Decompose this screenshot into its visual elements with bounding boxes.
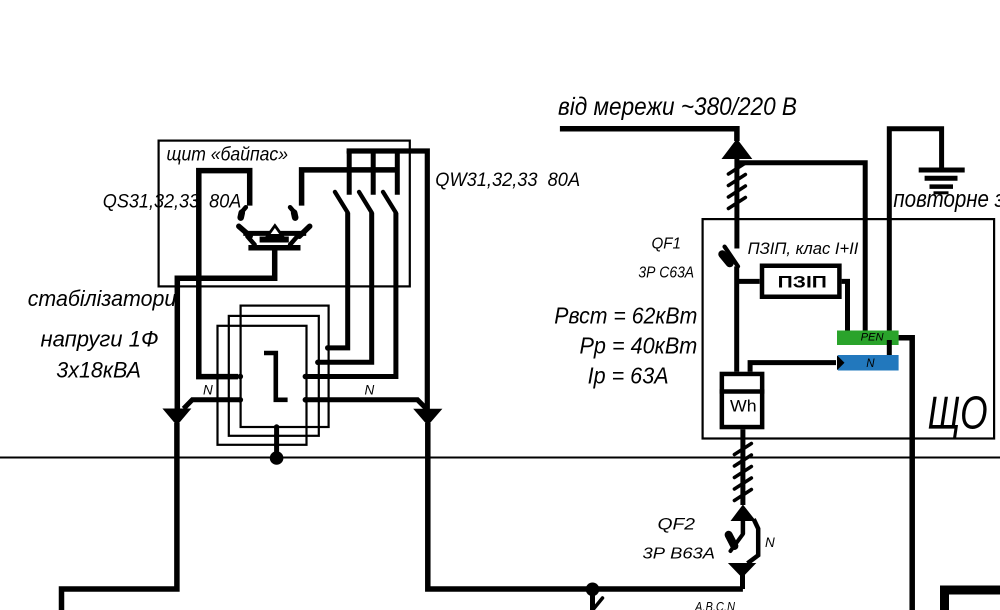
cable hatch 9: [734, 490, 751, 501]
cable hatch 8: [734, 478, 751, 489]
switch QW pole 3 top wire: [395, 151, 400, 195]
switch QS31,32,33: bowl left outer diagonal: [239, 226, 250, 236]
switch QW pole 3 blade: [383, 192, 396, 213]
bypass panel box "щит байпас": [159, 141, 410, 287]
node: N left dot: [238, 397, 244, 403]
N bus bar: [838, 355, 899, 371]
wire: N line right of stabilizer to right arrow: [305, 400, 426, 409]
ground bar 3: [930, 184, 954, 189]
wire: PEN to N link: [887, 340, 892, 362]
wire: left output continues to bottom left exit: [62, 423, 177, 610]
wire: supply line with corner: [560, 129, 737, 141]
arrow: right output down-arrow: [414, 409, 441, 425]
svg-text:QS31,32,33 80А: QS31,32,33 80А: [103, 191, 242, 213]
switch QW pole 1 top wire: [347, 151, 352, 195]
wire: QW pole 2 lower to stabilizer rect B: [318, 213, 371, 362]
node: big junction dot on thin bus: [270, 451, 284, 465]
wire: stabilizer bottom stem: [274, 427, 279, 458]
wire: QF2 down stub: [740, 574, 745, 589]
wire: thin full-width horizontal line: [0, 457, 1000, 459]
cable hatch 2: [728, 175, 745, 186]
switch QS31,32,33: left jaw blob: [241, 213, 242, 218]
wire: PEN right to PE down-line: [899, 338, 913, 610]
node: pole2 dot: [315, 360, 321, 366]
cable hatch 1: [728, 163, 745, 174]
wire: right output down to bottom bus: [428, 423, 743, 589]
svg-text:N: N: [765, 535, 775, 550]
stabilizer rect C: [218, 326, 307, 445]
wire: meter N wire to N bus: [750, 363, 836, 372]
svg-text:Рвст = 62кВт: Рвст = 62кВт: [554, 303, 697, 329]
wire: SPD to PEN bus: [842, 281, 848, 337]
switch QS31,32,33: right jaw blob: [294, 213, 295, 218]
wire: QW top bus with right drop to output arrow: [347, 151, 428, 410]
switch QS31,32,33: bowl rim: [243, 231, 306, 236]
svg-text:3x18кВА: 3x18кВА: [56, 358, 141, 383]
wire: QS right contact feed (to QW pole 3): [302, 170, 398, 206]
wire: repeated ground branch: [889, 129, 941, 337]
svg-text:3Р В63А: 3Р В63А: [643, 546, 716, 563]
wire: Wh output cable down: [740, 429, 745, 505]
ground bar 1: [919, 168, 965, 173]
bottom right panel box: [945, 590, 1000, 610]
node: bottom junction dot: [586, 583, 600, 597]
node: stabilizer input dot: [238, 374, 244, 380]
PEN bus bar: [837, 331, 899, 346]
wire: branch from supply to PEN bus: [737, 163, 865, 337]
node: stem dot on rect B bottom: [274, 433, 279, 438]
switch QS31,32,33: left jaw: [242, 207, 246, 211]
svg-text:QF1: QF1: [652, 236, 682, 253]
meter Wh divider: [720, 389, 765, 394]
breaker QF1 blade: [725, 247, 738, 267]
cable hatch 6: [734, 455, 751, 466]
wire: QF1 output to Wh: [734, 266, 739, 371]
wire: to SPD: [737, 279, 760, 284]
node: N right dot: [303, 397, 309, 403]
svg-text:напруги 1Ф: напруги 1Ф: [41, 327, 159, 352]
arrow: left output down-arrow: [164, 409, 191, 425]
svg-text:N: N: [365, 383, 375, 398]
wire: supply drop to QF1: [734, 159, 739, 249]
breaker QF2 tick: [729, 535, 735, 546]
wire: QW pole 3 lower to stabilizer rect C: [306, 213, 396, 377]
svg-text:N: N: [203, 383, 213, 398]
breaker QF2 blade: [731, 534, 744, 551]
switch QS31,32,33: inner bar: [260, 237, 289, 243]
svg-text:3Р С63А: 3Р С63А: [638, 265, 694, 282]
svg-text:PEN: PEN: [861, 332, 884, 344]
svg-text:Ір = 63А: Ір = 63А: [588, 363, 669, 389]
svg-text:Wh: Wh: [730, 398, 757, 416]
arrow: QF2 up-arrow: [731, 505, 756, 522]
node: pole1 dot: [325, 345, 331, 351]
svg-text:щит «байпас»: щит «байпас»: [167, 144, 289, 166]
switch QS31,32,33: bowl right side: [290, 236, 297, 244]
svg-text:стабілізатори: стабілізатори: [28, 286, 177, 311]
wire: QW pole 1 lower to stabilizer rect A: [328, 213, 348, 348]
stabilizer regulator symbol: [264, 353, 288, 400]
arrow: QF2 down-arrow: [728, 563, 756, 578]
switch QS31,32,33: right jaw: [290, 207, 294, 211]
cable hatch 7: [734, 467, 751, 478]
switch QW pole 1 blade: [335, 192, 348, 213]
switch QS31,32,33: bowl left side: [247, 236, 254, 244]
wire: QF2 stem: [741, 521, 746, 534]
svg-text:QF2: QF2: [658, 516, 696, 534]
svg-text:Рр = 40кВт: Рр = 40кВт: [580, 333, 698, 359]
box ЩО: [703, 219, 995, 438]
wire: N line left of stabilizer to left arrow: [184, 400, 241, 409]
wire: QF2 N bypass loop: [748, 519, 759, 563]
svg-text:повторне за: повторне за: [893, 186, 1000, 213]
meter Wh box: [722, 374, 762, 427]
SPD box ПЗІП: [762, 266, 839, 297]
wire: junction drop: [590, 589, 595, 610]
switch QW pole 2 top wire: [371, 151, 376, 195]
node: stem dot on rect A bottom: [274, 424, 279, 429]
svg-text:від мережи ~380/220 В: від мережи ~380/220 В: [558, 93, 797, 121]
wire: QS left contact feed (to stabilizer input): [199, 171, 250, 377]
svg-text:ПЗІП: ПЗІП: [778, 273, 827, 292]
arrow: supply up-arrow: [723, 140, 752, 159]
node: pole3 dot: [303, 374, 309, 380]
switch QW pole 2 blade: [359, 192, 372, 213]
ground bar 4: [934, 191, 949, 194]
stabilizer rect B: [229, 316, 319, 436]
switch QS31,32,33: bowl right outer diagonal: [299, 226, 309, 236]
svg-text:ЩО: ЩО: [928, 387, 988, 439]
switch QS31,32,33: bowl bottom bar: [248, 245, 300, 251]
wire: QS common stem down-left to output arrow: [177, 248, 274, 410]
node: stem dot on rect C bottom: [274, 442, 279, 447]
switch QS31,32,33: pointer triangle: [268, 226, 282, 236]
cable hatch 3: [728, 186, 745, 197]
svg-text:ПЗІП, клас І+ІІ: ПЗІП, клас І+ІІ: [748, 240, 859, 258]
ground bar 2: [925, 176, 958, 181]
cable hatch 5: [734, 444, 751, 455]
svg-text:А,В,С,N: А,В,С,N: [694, 599, 735, 610]
cable hatch 10: [594, 598, 603, 609]
arrow: N bus entry arrow: [837, 355, 845, 370]
breaker QF1 tick: [722, 254, 730, 263]
stabilizer rect A: [241, 306, 329, 427]
svg-text:QW31,32,33 80А: QW31,32,33 80А: [435, 169, 580, 191]
cable hatch 4: [728, 198, 745, 209]
svg-text:N: N: [866, 358, 875, 370]
